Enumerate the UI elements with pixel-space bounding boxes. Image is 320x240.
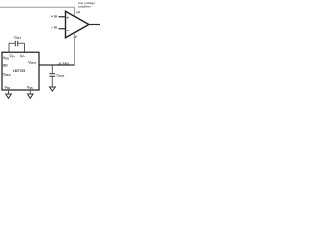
wire -V supply down [73, 33, 77, 65]
IC U2 LM7705 box [2, 52, 39, 90]
wire -In [59, 26, 66, 31]
wire CF- lead down [23, 43, 26, 52]
svg-text:SD: SD [3, 63, 8, 67]
wire VDD rail to amp +V [0, 7, 75, 17]
svg-text:−: − [67, 28, 70, 33]
ground VSS2 [28, 94, 34, 98]
svg-text:LM7705: LM7705 [13, 69, 25, 73]
op-amp U1 low voltage amplifier [66, 11, 89, 38]
capacitor CFLY [9, 41, 25, 53]
capacitor COUT [50, 65, 56, 87]
wire VSS2 to ground [28, 90, 32, 94]
wire VOUT rail [39, 63, 75, 68]
ground VSS1 [6, 94, 12, 98]
svg-text:− In: − In [51, 26, 57, 30]
svg-text:-0.23V: -0.23V [58, 61, 70, 66]
svg-text:+ In: + In [51, 15, 57, 19]
svg-text:+: + [67, 16, 70, 21]
svg-text:amplifier: amplifier [78, 5, 92, 9]
svg-text:low voltage: low voltage [78, 1, 95, 5]
wire CF+ lead down [7, 43, 10, 52]
wire amp output [89, 22, 100, 27]
wire VSS1 to ground [7, 90, 11, 94]
wire +In [59, 14, 66, 19]
ground under COUT [50, 87, 56, 91]
